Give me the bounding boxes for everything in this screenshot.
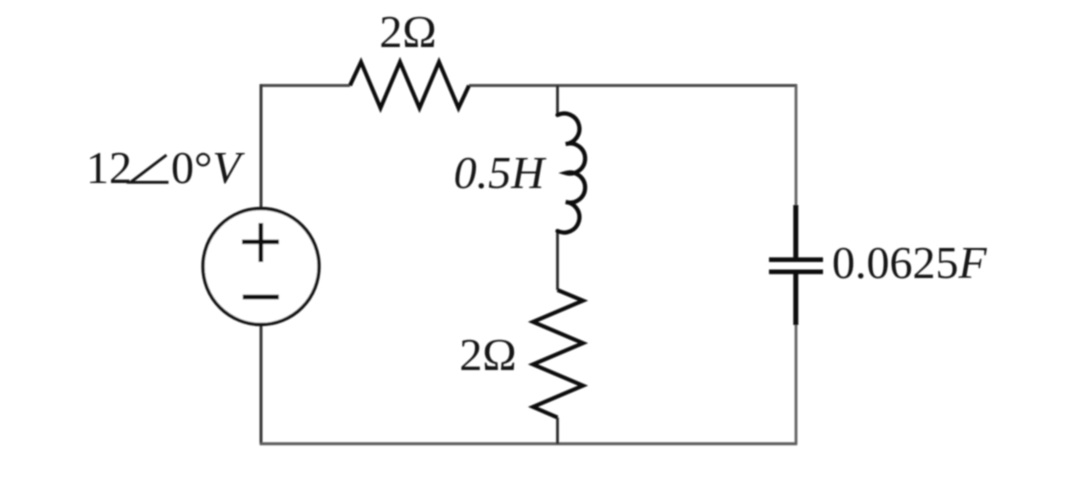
capacitor C1 bottom lead thick [793,274,798,325]
inductor L1 0.5H coil [558,113,586,232]
svg-text:12: 12 [86,142,132,193]
svg-text:0.5H: 0.5H [454,147,548,198]
wire top-left horizontal [260,84,350,87]
wire bottom horizontal [260,442,798,445]
voltage source minus sign [243,295,279,300]
svg-text:0.0625F: 0.0625F [832,237,988,288]
wire top-middle horizontal [469,84,797,87]
wire left vertical (source top lead) [260,84,263,208]
wire middle branch between inductor and resistor [556,231,559,290]
svg-text:2Ω: 2Ω [379,6,436,57]
resistor R2 2ohm middle zigzag [533,290,583,418]
capacitor C1 bottom plate [769,269,823,274]
resistor R1 2ohm top zigzag [350,62,469,108]
wire middle branch top [556,86,559,116]
voltage source plus sign [242,223,279,262]
wire right vertical bottom [795,324,798,444]
label angle symbol [131,155,169,182]
wire left vertical (source bottom lead) [260,325,263,444]
wire right vertical top [795,86,798,207]
capacitor C1 top plate [769,257,823,262]
svg-text:2Ω: 2Ω [459,329,516,380]
svg-text:0°V: 0°V [171,142,245,193]
wire middle branch bottom [556,418,559,444]
capacitor C1 top lead thick [793,205,798,258]
voltage source V1 circle [203,209,319,325]
